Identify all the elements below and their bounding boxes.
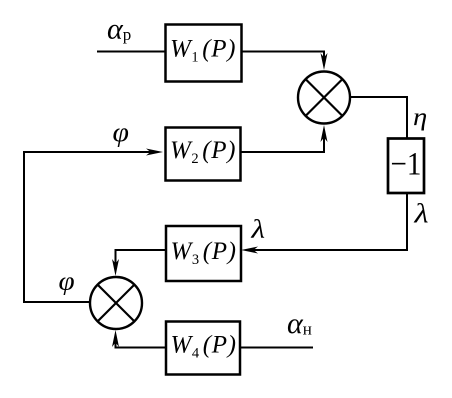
label lambda left (250, 215, 265, 244)
multiplier M2 (90, 277, 142, 329)
arrowhead into W2 (146, 149, 163, 156)
svg-text:W3(P): W3(P) (170, 238, 236, 268)
label lambda right (413, 199, 428, 229)
block W3 (166, 226, 241, 281)
svg-text:λ: λ (413, 199, 428, 229)
wire W4 output to multiplier M2 bottom (116, 338, 167, 348)
block W2 (166, 128, 241, 181)
svg-text:W4(P): W4(P) (170, 332, 236, 362)
block -1 (388, 139, 424, 194)
wire W1 output to multiplier M1 top (241, 52, 324, 63)
wire alpha_n input to W4 (240, 347, 313, 349)
wire W2 output to multiplier M1 bottom (241, 133, 324, 152)
label phi near M2 (59, 266, 75, 295)
wire M2 output feedback to W2 input (24, 152, 156, 302)
block W1 (166, 25, 242, 82)
wire M1 output to block -1 (350, 97, 407, 138)
svg-text:η: η (413, 103, 427, 131)
svg-text:λ: λ (250, 215, 265, 244)
svg-text:φ: φ (59, 266, 75, 295)
svg-text:−1: −1 (391, 145, 422, 182)
svg-text:φ: φ (113, 118, 129, 147)
arrowhead into M2 top (112, 259, 119, 276)
arrowhead into M1 bottom (321, 125, 328, 142)
arrowhead into M1 top (321, 53, 328, 70)
label phi near W2 (113, 118, 129, 147)
label eta (413, 103, 427, 131)
arrowhead into W3 (241, 247, 258, 254)
arrowhead into M2 bottom (112, 330, 119, 347)
wire alpha_p input to W1 (97, 51, 166, 53)
wire -1 output to W3 input (250, 193, 407, 250)
wire W3 output to multiplier M2 top (116, 250, 167, 268)
svg-text:W1(P): W1(P) (170, 36, 236, 66)
multiplier M1 (298, 72, 350, 124)
block W4 (166, 322, 240, 375)
svg-text:W2(P): W2(P) (170, 137, 236, 167)
